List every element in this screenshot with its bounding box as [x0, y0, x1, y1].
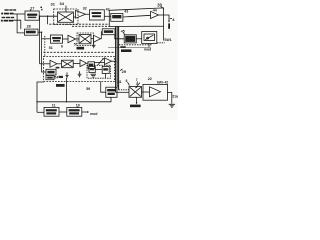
- svg-text:mod: mod: [144, 48, 151, 52]
- amp 53: [50, 60, 57, 67]
- stub tuner to box45 wire: [115, 35, 124, 39]
- dashed enclosure mixer 2: [77, 33, 94, 46]
- svg-text:mod: mod: [90, 112, 97, 116]
- label 29: [122, 69, 127, 74]
- wire from box30 down to antenna switch: [163, 26, 165, 40]
- bus line 2: [116, 26, 118, 87]
- svg-text:43: 43: [124, 10, 128, 14]
- box 30 outline: [109, 8, 163, 27]
- mod label under switch: [144, 48, 151, 52]
- input label text line 1: [5, 9, 17, 10]
- svg-text:29: 29: [122, 69, 127, 74]
- svg-text:32: 32: [83, 6, 87, 10]
- wire 51 to amp: [63, 38, 69, 40]
- label 41: [118, 80, 122, 84]
- junction dot: [39, 16, 40, 17]
- wire into amp 53: [40, 63, 50, 65]
- arrow down from mixer 40: [136, 97, 138, 103]
- label 31: [51, 2, 56, 7]
- amp 57: [105, 58, 112, 65]
- junction dot: [47, 15, 49, 17]
- label 4: [172, 17, 175, 22]
- tick marks text: [120, 46, 125, 48]
- label 5t: [74, 42, 77, 46]
- label 22: [148, 77, 152, 81]
- wire mixer40 to amp: [142, 91, 150, 93]
- stub to label 4: [170, 18, 172, 20]
- svg-text:21a: 21a: [172, 95, 178, 99]
- wire to box 56: [87, 62, 89, 64]
- SY box: [106, 87, 117, 97]
- box 58b: [46, 76, 54, 80]
- stub below box B: [105, 74, 107, 79]
- vco tuning arrow: [98, 59, 104, 66]
- box 43: [111, 13, 123, 21]
- svg-text:28: 28: [27, 25, 31, 29]
- wire 42 to 43: [104, 15, 111, 17]
- box 58: [46, 69, 56, 75]
- label 42: [106, 7, 110, 11]
- Sy=cml bottom text: [130, 105, 141, 108]
- input label text line 2: [1, 13, 13, 15]
- mixer 54: [62, 60, 74, 67]
- ground symbol: [65, 72, 68, 77]
- svg-text:6: 6: [126, 79, 128, 83]
- marks 2-4: [59, 76, 63, 78]
- box 28: [25, 29, 39, 35]
- wire into box 51: [42, 38, 51, 40]
- svg-text:11: 11: [52, 104, 56, 108]
- wire 43 to amp 44: [123, 15, 151, 17]
- label 44: [153, 8, 157, 12]
- label 7 tick: [136, 78, 138, 82]
- wire input B: [14, 20, 21, 29]
- amp 55: [94, 35, 101, 42]
- switch inner box: [144, 34, 155, 41]
- wire into box11: [37, 111, 44, 113]
- arrow switch to mod: [148, 44, 150, 48]
- wire to vco: [95, 62, 105, 64]
- leader 27: [29, 10, 32, 11]
- dashed line to mixer: [119, 89, 129, 91]
- bus line 3: [118, 26, 120, 90]
- wire box11 to box10: [59, 111, 67, 113]
- wire input A to box27: [14, 13, 26, 15]
- svg-text:41: 41: [118, 80, 122, 84]
- wire A to B: [95, 69, 102, 71]
- stub down from junction: [47, 16, 49, 24]
- box 27: [25, 11, 39, 20]
- wire synth box to left vertical: [37, 82, 44, 112]
- wire amp44 to antenna terminal: [159, 15, 170, 21]
- svg-text:54: 54: [54, 76, 58, 80]
- amp 55b: [80, 60, 87, 67]
- label 43: [124, 10, 128, 14]
- box 45 (dark): [124, 35, 136, 43]
- antenna connector bar: [168, 23, 170, 28]
- amp 42b: [150, 87, 161, 97]
- wire box27 output to mixer 31: [39, 15, 57, 17]
- box B: [102, 67, 109, 74]
- dashed line continuation of box30 bottom: [49, 23, 109, 25]
- wire from synth bottom down: [66, 78, 68, 102]
- junction dot: [41, 32, 42, 33]
- tuner box: [102, 29, 115, 35]
- wire vertical C down to synthesizer block: [39, 16, 41, 64]
- label 10: [76, 103, 80, 107]
- wire amp53 to mixer 54: [57, 63, 62, 65]
- wire vertical D down: [42, 32, 46, 72]
- svg-text:45: 45: [121, 29, 125, 33]
- dashed control line: [119, 44, 152, 46]
- ground 21a: [169, 104, 175, 107]
- svg-text:6: 6: [61, 45, 63, 49]
- svg-text:22: 22: [148, 77, 152, 81]
- mixer 2: [79, 35, 91, 44]
- wire amp32 to divider 42: [86, 13, 90, 15]
- wire mixer to amp 32: [74, 16, 76, 18]
- long thin line: [108, 46, 151, 48]
- svg-text:51: 51: [49, 46, 53, 50]
- SWR text: [77, 47, 85, 50]
- leader 45: [123, 32, 124, 34]
- svg-text:SWl–42: SWl–42: [157, 80, 169, 84]
- wire amp to mixer2: [76, 38, 80, 40]
- SW1 label: [164, 38, 171, 42]
- input label text line 3: [2, 17, 15, 18]
- long horizontal wire: [37, 97, 111, 102]
- output amp box: [143, 84, 168, 100]
- label 51: [49, 46, 53, 50]
- wire 45 to switch: [136, 38, 141, 40]
- dashed line 2: [72, 25, 109, 27]
- tick marks near 4: [40, 7, 42, 11]
- arrow into mixer 40: [136, 83, 140, 88]
- leader from mixer 31 up: [65, 6, 67, 12]
- label 30: [157, 2, 162, 7]
- wire down into SY box: [101, 82, 106, 93]
- wire bus to mixer 40: [116, 91, 129, 93]
- label 6: [61, 45, 63, 49]
- box 51: [51, 35, 63, 43]
- wire mixer2 to amp2: [91, 38, 94, 40]
- dashed edge vertical: [44, 36, 46, 57]
- label 54: [54, 76, 58, 80]
- svg-text:30: 30: [157, 2, 162, 7]
- svg-text:5l: 5l: [74, 42, 77, 46]
- label 27: [30, 6, 34, 10]
- label SW1-42 text: [157, 80, 169, 84]
- output arrow of box10: [82, 111, 88, 113]
- mixer 31: [58, 12, 74, 22]
- divider box 42: [90, 10, 105, 20]
- svg-text:SW1: SW1: [164, 38, 171, 42]
- leader 29: [120, 69, 122, 71]
- wire amp57 to bus: [112, 60, 116, 62]
- arrowhead down: [168, 21, 170, 23]
- leader 10: [77, 107, 78, 108]
- capacitor symbol: [92, 43, 96, 49]
- dashes near switch: [157, 42, 165, 44]
- box 11: [44, 107, 59, 116]
- mod text: [90, 112, 97, 116]
- mixer 40: [129, 87, 142, 98]
- hatch under box A: [91, 74, 97, 77]
- box 10: [67, 107, 82, 116]
- label 45: [121, 29, 125, 33]
- wire elbow up into tuner box: [101, 32, 103, 39]
- switch lever: [145, 35, 153, 39]
- capacitor marks: [78, 71, 82, 77]
- inner dashed sub-box: [87, 65, 111, 78]
- Sy-cml text: [121, 49, 131, 52]
- SYm text: [56, 84, 65, 87]
- bus line 1: [115, 26, 117, 92]
- synthesizer dashed enclosure: [44, 57, 115, 82]
- label 34: [60, 1, 65, 6]
- label 11: [52, 104, 56, 108]
- label 6 tick: [126, 79, 128, 83]
- svg-text:59: 59: [86, 87, 90, 91]
- antenna switch outer box: [142, 32, 157, 44]
- svg-text:44: 44: [153, 8, 157, 12]
- label 59: [86, 87, 90, 91]
- leader 30: [161, 7, 164, 9]
- svg-text:34: 34: [60, 1, 65, 6]
- label 28: [27, 25, 31, 29]
- wire branch vertical A into box 28: [17, 14, 24, 33]
- dashed enclosure 31: [54, 9, 78, 25]
- small label 5x: [56, 67, 60, 69]
- amp 32: [76, 11, 86, 19]
- svg-text:31: 31: [51, 2, 56, 7]
- amp 44: [151, 11, 159, 18]
- input label text line 4: [1, 20, 14, 22]
- amp 52: [68, 35, 76, 42]
- wire box28 output: [38, 31, 42, 33]
- label 32: [83, 6, 87, 10]
- label 21a: [172, 95, 178, 99]
- box A: [89, 67, 95, 73]
- box 56: [88, 62, 95, 69]
- wire amp out to terminal 21a: [168, 92, 172, 103]
- long dashed control line: [44, 51, 116, 53]
- wire mixer54 to amp 55: [73, 63, 80, 65]
